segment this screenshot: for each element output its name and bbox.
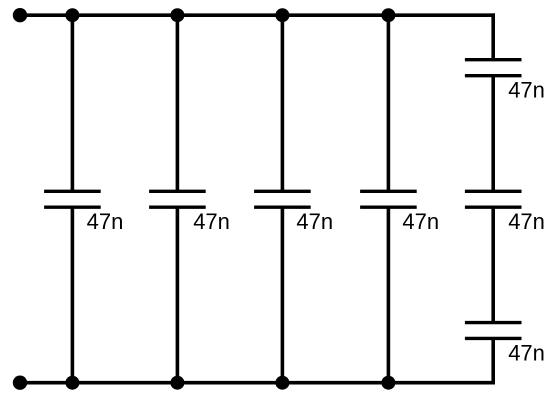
wire: branch 3 lower segment (281, 207, 285, 383)
wire: branch 4 lower segment (387, 207, 391, 383)
node: junction top bus / branch 2 (170, 8, 184, 22)
wire: branch 4 upper segment (387, 15, 391, 191)
svg-text:47n: 47n (508, 78, 545, 103)
wire: branch 3 upper segment (281, 15, 285, 191)
svg-text:47n: 47n (296, 209, 333, 234)
capacitor C3 (254, 191, 311, 207)
wire: bottom bus from left terminal to right corner (20, 381, 495, 385)
node: junction bottom bus / branch 4 (381, 376, 395, 390)
node: junction bottom bus / branch 1 (65, 376, 79, 390)
wire: branch 1 upper segment (71, 15, 75, 191)
wire: right column segment from C6 to C7 (491, 207, 495, 322)
svg-text:47n: 47n (193, 209, 230, 234)
capacitor C6 (465, 191, 522, 207)
capacitor C4 (360, 191, 417, 207)
svg-text:47n: 47n (508, 209, 545, 234)
wire: right column segment from top bus to C5 (491, 13, 495, 59)
capacitor C5 (465, 60, 522, 76)
capacitor C7 (465, 323, 522, 339)
wire: branch 2 upper segment (176, 15, 180, 191)
wire: top bus from left terminal to right corner (20, 13, 495, 17)
wire: branch 2 lower segment (176, 207, 180, 383)
wire: right column segment from C5 to C6 (491, 76, 495, 192)
node: junction bottom bus / branch 3 (275, 376, 289, 390)
capacitor C1 (44, 191, 101, 207)
node: junction top bus / branch 1 (65, 8, 79, 22)
node: junction top bus / branch 3 (275, 8, 289, 22)
wire: right column segment from C7 to bottom bus (491, 338, 495, 384)
terminal: top-left input dot (13, 8, 27, 22)
terminal: bottom-left input dot (13, 376, 27, 390)
svg-text:47n: 47n (402, 209, 439, 234)
svg-text:47n: 47n (508, 340, 545, 365)
capacitor C2 (149, 191, 206, 207)
wire: branch 1 lower segment (71, 207, 75, 383)
node: junction bottom bus / branch 2 (170, 376, 184, 390)
node: junction top bus / branch 4 (381, 8, 395, 22)
svg-text:47n: 47n (87, 209, 124, 234)
